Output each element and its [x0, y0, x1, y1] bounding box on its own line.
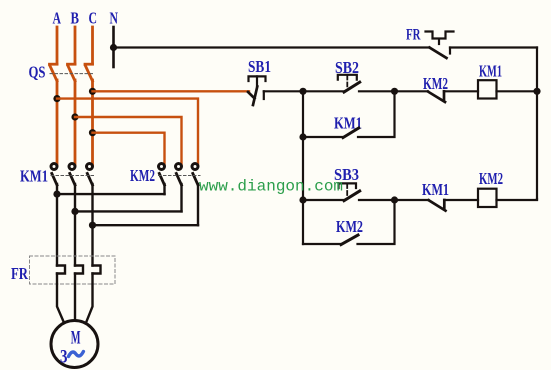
wire node to KM2 NC: [395, 90, 429, 92]
wire phase C drop: [91, 27, 94, 64]
svg-text:KM1: KM1: [20, 167, 48, 186]
svg-text:3: 3: [60, 347, 68, 368]
contact KM2 aux NO: [341, 235, 358, 245]
wire right rail: [536, 48, 538, 200]
wire join V phase: [75, 210, 182, 212]
contactor KM2 linkage dashed: [159, 175, 201, 177]
svg-text:KM1: KM1: [422, 180, 449, 199]
wire into motor W: [87, 274, 93, 322]
coil KM2: [478, 189, 497, 207]
wire phase B to KM1: [74, 80, 77, 165]
wire KM2 aux up to node: [358, 200, 395, 244]
node join W: [89, 222, 96, 229]
svg-text:QS: QS: [29, 63, 46, 82]
node crossover C: [89, 129, 96, 136]
thermal relay FR heater 3: [93, 266, 101, 274]
node crossover A: [53, 95, 60, 102]
svg-text:C: C: [89, 9, 98, 28]
contactor KM1 main pole 2: [69, 164, 75, 186]
wire KM1 aux up to node: [358, 91, 395, 137]
contactor KM2 main pole 1: [159, 164, 165, 186]
wire KM2 pole2 down: [180, 184, 182, 211]
wire into motor U: [57, 274, 64, 322]
motor M circle: [51, 321, 98, 368]
wire crossover C to KM2 left pole: [93, 133, 165, 165]
thermal relay FR heater 2: [75, 266, 83, 274]
svg-text:KM2: KM2: [130, 166, 155, 185]
wire KM2 pole3 down: [197, 184, 199, 225]
node crossover B: [71, 113, 78, 120]
contact KM1 NC interlock: [429, 200, 446, 211]
node join U: [53, 191, 60, 198]
pushbutton SB3 NO start rev: [339, 183, 360, 200]
svg-text:M: M: [71, 328, 81, 349]
contactor KM2 main pole 2: [176, 164, 182, 186]
svg-text:B: B: [71, 9, 80, 28]
wire phase A drop: [56, 27, 59, 64]
svg-text:www.diangon.com: www.diangon.com: [199, 178, 343, 196]
wire SB3 to node: [359, 199, 395, 201]
contact KM2 NC interlock: [428, 91, 445, 102]
wire crossover A to KM2 right pole: [57, 99, 198, 165]
switch QS pole A: [50, 64, 58, 81]
wire neutral N drop: [112, 27, 115, 67]
svg-text:KM2: KM2: [336, 217, 363, 236]
motor tilde: [69, 352, 84, 357]
wire node to KM1 NC: [395, 199, 429, 201]
wire FR contact to right rail: [450, 46, 537, 48]
wire coil KM2 to rail: [497, 199, 538, 200]
node SB3 left: [299, 196, 306, 203]
node SB2 out: [391, 88, 398, 95]
wire rail down to KM2 aux: [303, 243, 341, 245]
wire into motor V: [74, 274, 76, 321]
wire C to SB1: [93, 90, 250, 92]
wire motor lead U: [56, 184, 58, 266]
wire motor lead V: [74, 184, 76, 266]
wire KM2 NC to coil KM1: [444, 90, 478, 92]
node right rail: [533, 88, 540, 95]
wire motor lead W: [91, 184, 93, 266]
contact KM1 aux NO: [343, 128, 359, 138]
svg-text:FR: FR: [11, 264, 29, 283]
svg-text:A: A: [53, 9, 62, 28]
pushbutton SB2 NO start fwd: [338, 75, 360, 92]
wire rail to SB2: [303, 90, 345, 92]
wire KM1 NC to coil KM2: [444, 199, 478, 201]
svg-text:KM2: KM2: [479, 169, 503, 188]
node N tap: [110, 44, 117, 51]
pushbutton SB1 NC stop: [248, 76, 266, 105]
wire phase A to KM1: [56, 80, 59, 165]
wire KM2 pole1 down: [163, 184, 165, 194]
svg-text:SB1: SB1: [248, 57, 271, 76]
wire left rail: [302, 91, 304, 244]
svg-text:FR: FR: [406, 27, 421, 44]
wire rail to SB3: [303, 199, 345, 201]
wire SB2 to node: [359, 90, 395, 92]
node join V: [71, 208, 78, 215]
svg-text:N: N: [110, 9, 119, 28]
wire join U phase: [57, 193, 165, 195]
wire N bus to FR contact: [114, 46, 430, 48]
contactor KM1 linkage dashed: [51, 175, 94, 177]
wire phase B drop: [74, 27, 77, 64]
switch QS linkage dashed: [50, 73, 94, 75]
node left rail top: [299, 88, 306, 95]
wire coil KM1 to rail: [497, 90, 538, 92]
node tap C to control circuit: [89, 88, 96, 95]
wire phase C to KM1: [91, 80, 94, 165]
coil KM1: [478, 80, 497, 98]
wire join W phase: [93, 224, 199, 226]
wire rail to KM1 aux: [303, 136, 343, 138]
svg-text:KM1: KM1: [479, 62, 502, 81]
switch QS pole C: [85, 64, 93, 81]
contactor KM1 main pole 1: [51, 164, 57, 186]
node SB3 out: [391, 196, 398, 203]
wire crossover B to KM2 middle pole: [75, 117, 182, 165]
contactor KM1 main pole 3: [87, 164, 93, 186]
thermal relay FR dashed box: [30, 256, 116, 284]
thermal relay FR NC contact: [426, 32, 454, 59]
wire SB1 to left rail: [264, 90, 303, 92]
contactor KM2 main pole 3: [192, 164, 198, 186]
thermal relay FR heater 1: [57, 266, 65, 274]
node KM1 aux left: [299, 133, 306, 140]
switch QS pole B: [68, 64, 76, 81]
